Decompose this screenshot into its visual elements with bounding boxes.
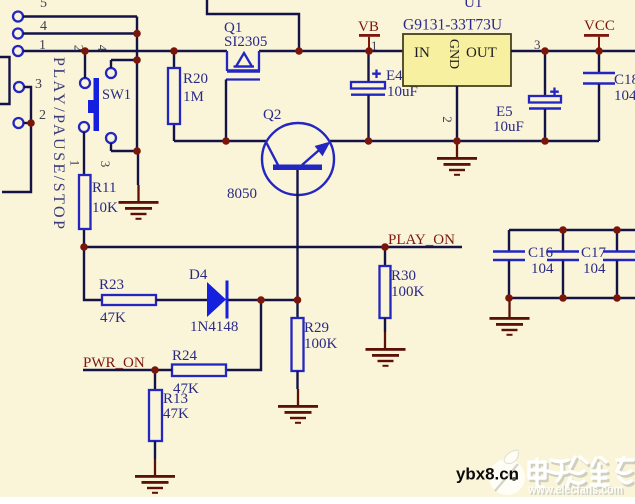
connector pin labels bbox=[35, 0, 47, 123]
resistor R24 bbox=[172, 348, 226, 397]
wire D4 cathode bbox=[229, 299, 298, 301]
svg-text:GND: GND bbox=[446, 39, 461, 69]
wire vertical x137 bbox=[136, 17, 138, 152]
svg-text:10uF: 10uF bbox=[493, 119, 524, 135]
svg-text:R13: R13 bbox=[163, 391, 188, 407]
svg-text:C17: C17 bbox=[581, 245, 607, 261]
svg-text:C18: C18 bbox=[614, 72, 635, 88]
ground R13 bbox=[135, 459, 175, 494]
svg-text:47K: 47K bbox=[100, 310, 126, 326]
svg-text:PLAY_ON: PLAY_ON bbox=[388, 232, 455, 248]
svg-text:2: 2 bbox=[39, 108, 46, 123]
wire gnd rail right part bbox=[330, 140, 599, 142]
wire main rail y51 left bbox=[23, 50, 227, 52]
wire pin2 stub bbox=[24, 122, 32, 124]
svg-text:U1: U1 bbox=[464, 0, 482, 11]
svg-text:D4: D4 bbox=[189, 267, 208, 283]
capacitor C19 (clipped right) bbox=[603, 230, 635, 298]
svg-text:104: 104 bbox=[583, 261, 606, 277]
regulator U1 G9131-33T73U bbox=[403, 0, 511, 86]
ground C16 block bbox=[490, 298, 530, 336]
watermark chinese strokes bbox=[531, 460, 635, 492]
capacitor C16 104 bbox=[493, 230, 554, 298]
watermark logo circle bbox=[489, 450, 525, 495]
svg-text:5: 5 bbox=[40, 0, 47, 11]
svg-text:Q2: Q2 bbox=[263, 107, 281, 123]
svg-text:104: 104 bbox=[531, 261, 554, 277]
wire U1 out pin3 bbox=[511, 50, 635, 52]
wire U1 gnd pin2 bbox=[456, 86, 458, 141]
svg-text:VCC: VCC bbox=[584, 18, 615, 34]
svg-text:R24: R24 bbox=[172, 348, 198, 364]
svg-text:1: 1 bbox=[68, 160, 83, 167]
svg-text:R20: R20 bbox=[183, 71, 208, 87]
resistor R20 bbox=[168, 51, 208, 141]
svg-text:1N4148: 1N4148 bbox=[190, 319, 238, 335]
capacitor E4 (polarized 10uF) bbox=[351, 51, 418, 141]
wire Q1 gate down bbox=[225, 80, 227, 142]
svg-text:R11: R11 bbox=[92, 180, 116, 196]
svg-text:10K: 10K bbox=[92, 200, 118, 216]
svg-text:VB: VB bbox=[358, 19, 379, 35]
svg-text:47K: 47K bbox=[163, 406, 189, 422]
resistor R13 bbox=[149, 370, 189, 459]
resistor R30 bbox=[380, 247, 425, 332]
wire pin4 bbox=[23, 32, 137, 34]
svg-text:E5: E5 bbox=[496, 104, 513, 120]
ground R29 bbox=[278, 389, 318, 424]
svg-text:OUT: OUT bbox=[466, 45, 497, 61]
transistor Q2 8050 (NPN) bbox=[227, 107, 334, 202]
resistor R11 bbox=[79, 175, 118, 247]
svg-text:R30: R30 bbox=[391, 268, 416, 284]
svg-text:SW1: SW1 bbox=[102, 87, 131, 103]
ground SW1 bbox=[119, 185, 159, 220]
wire C16 block bottom rail bbox=[509, 297, 635, 299]
svg-text:R23: R23 bbox=[99, 277, 124, 293]
svg-text:8050: 8050 bbox=[227, 186, 257, 202]
wire Q2 base down bbox=[296, 170, 298, 300]
wire pin3 down bbox=[2, 87, 31, 192]
wire PWR_ON bbox=[83, 369, 172, 371]
wire main rail y51 mid bbox=[259, 50, 403, 52]
capacitor C17 104 bbox=[547, 230, 607, 298]
svg-text:G9131-33T73U: G9131-33T73U bbox=[403, 17, 502, 34]
wire C16 block top rail bbox=[509, 229, 635, 231]
connector J1 body (partial at left edge) bbox=[0, 57, 10, 104]
svg-text:2: 2 bbox=[440, 116, 455, 123]
svg-text:PWR_ON: PWR_ON bbox=[83, 355, 145, 371]
capacitor E5 (polarized 10uF) bbox=[493, 51, 561, 141]
svg-text:3: 3 bbox=[35, 77, 42, 92]
resistor R29 bbox=[292, 300, 338, 389]
svg-text:E4: E4 bbox=[386, 68, 403, 84]
capacitor C18 (top right, clipped) bbox=[583, 51, 635, 141]
diode D4 1N4148 bbox=[189, 267, 238, 335]
wire gnd rail left part bbox=[174, 140, 266, 142]
wire R11 junction down to R23 bbox=[84, 247, 102, 300]
ground U1 bbox=[437, 141, 477, 176]
wire SW1 pin4 bbox=[111, 60, 137, 68]
svg-text:www.elecfans.com: www.elecfans.com bbox=[527, 482, 623, 497]
wire R23 to D4 bbox=[156, 299, 207, 301]
svg-text:SI2305: SI2305 bbox=[224, 34, 267, 50]
wire to ground SW bbox=[137, 151, 139, 185]
wire PLAY_ON rail bbox=[84, 246, 462, 248]
svg-text:100K: 100K bbox=[304, 336, 338, 352]
power port VCC bbox=[584, 18, 615, 51]
svg-text:C16: C16 bbox=[528, 245, 554, 261]
transistor Q1 SI2305 (P-MOSFET) bbox=[224, 20, 267, 80]
svg-text:1M: 1M bbox=[183, 89, 204, 105]
svg-text:104: 104 bbox=[614, 88, 635, 104]
wire R24 up link bbox=[226, 300, 261, 370]
power port VB bbox=[358, 19, 380, 51]
wire SW1 pin3 bbox=[111, 143, 137, 151]
wire top jog from offsheet bbox=[207, 0, 299, 51]
wire pin5 top bbox=[23, 15, 137, 17]
svg-text:PLAY/PAUSE/STOP: PLAY/PAUSE/STOP bbox=[50, 57, 67, 229]
resistor R23 bbox=[99, 277, 156, 326]
svg-text:ybx8.cn: ybx8.cn bbox=[456, 466, 519, 484]
wire SW1 pin2 to rail bbox=[84, 51, 86, 78]
connector pin circles bbox=[13, 12, 24, 129]
svg-text:3: 3 bbox=[534, 37, 541, 52]
switch SW1 bbox=[68, 45, 132, 168]
wire SW1 pin1 to R11 bbox=[83, 132, 85, 175]
svg-text:4: 4 bbox=[95, 45, 110, 52]
svg-text:3: 3 bbox=[98, 161, 113, 168]
svg-text:IN: IN bbox=[414, 45, 430, 61]
svg-text:R29: R29 bbox=[304, 320, 329, 336]
ground R30 bbox=[366, 332, 406, 367]
svg-text:100K: 100K bbox=[391, 284, 425, 300]
svg-text:4: 4 bbox=[40, 19, 47, 34]
